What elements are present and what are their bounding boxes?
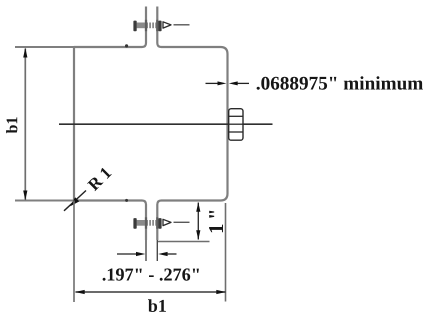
bottom bolt [133, 217, 189, 228]
extension line left wall down to b1 bottom [73, 201, 75, 303]
top bolt [133, 20, 189, 31]
label b1 bottom [148, 299, 166, 312]
slot wall extension lines down [145, 240, 147, 261]
junction dot on bottom edge [125, 199, 128, 202]
label R 1 (rotated 45) [87, 167, 112, 192]
profile outline left part with top and bottom slot left walls [74, 7, 146, 241]
label .0688975" minimum [257, 76, 423, 90]
dimension line b1 bottom [76, 291, 226, 293]
arrowhead b1 left bottom [23, 191, 27, 201]
junction dot on top edge [125, 44, 128, 47]
extension line right wall down to b1 bottom [225, 203, 227, 302]
arrowhead 1 inch bottom [196, 230, 200, 240]
dimension line b1 left [24, 49, 26, 200]
label b1 left (rotated) [6, 117, 17, 133]
nut on right wall [229, 109, 243, 141]
extension line bottom left (b1 vertical) [15, 200, 74, 202]
radius callout arrowhead [70, 197, 79, 206]
radius callout R 1 leader [64, 191, 86, 211]
arrowhead b1 left top [23, 48, 27, 58]
label 1 inch (rotated) [209, 211, 223, 233]
extension line top left (b1 vertical) [15, 46, 74, 48]
profile outline right part with rounded corners and slot right walls [157, 7, 227, 241]
arrowhead b1 bottom left [75, 290, 85, 294]
arrowhead b1 bottom right [216, 290, 226, 294]
slot width arrows (.197 - .276) [117, 252, 177, 256]
label .197" - .276" [103, 268, 199, 280]
arrowhead 1 inch top [196, 202, 200, 212]
dimension line 1 inch [197, 203, 199, 240]
centerline through body [59, 123, 273, 125]
extension line channel bottom (for 1" dim) [157, 241, 209, 243]
wall thickness callout arrows (.0688975" minimum) [206, 81, 250, 85]
